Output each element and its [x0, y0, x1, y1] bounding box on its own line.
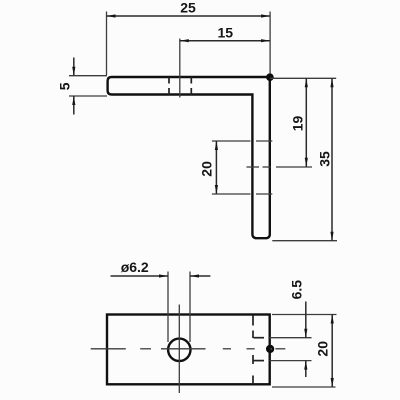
svg-text:19: 19: [290, 116, 306, 132]
svg-text:15: 15: [218, 24, 234, 40]
svg-text:ø6.2: ø6.2: [121, 259, 149, 275]
svg-text:25: 25: [180, 0, 196, 16]
svg-text:5: 5: [56, 82, 72, 90]
svg-text:35: 35: [317, 151, 333, 167]
svg-text:20: 20: [314, 341, 330, 357]
svg-text:6.5: 6.5: [289, 280, 305, 300]
svg-text:20: 20: [199, 161, 215, 177]
